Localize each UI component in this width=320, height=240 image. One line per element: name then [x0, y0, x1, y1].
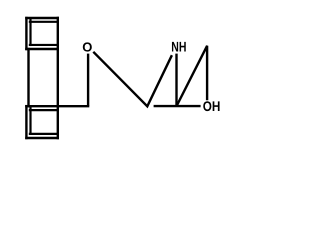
- ring A outer top edge: [26, 17, 57, 19]
- ring A inner bottom double-bond line: [30, 44, 58, 46]
- ring B outer left edge: [25, 106, 27, 138]
- bonds C2 up to apex and apex down to OH: [177, 46, 208, 106]
- ring B top edge extending as bond toward O: [26, 105, 88, 107]
- bonds O to C1 and C1 up to NH: [93, 52, 172, 107]
- ring A outer bottom edge: [26, 48, 57, 50]
- svg-text:OH: OH: [203, 98, 221, 114]
- middle left vertical wire: [27, 49, 29, 106]
- ring B inner left double-bond line: [29, 108, 31, 134]
- ring A outer left edge: [25, 18, 27, 49]
- ring A inner top double-bond line: [30, 21, 58, 23]
- svg-text:NH: NH: [171, 39, 186, 55]
- ring B inner bottom double-bond line: [30, 133, 58, 135]
- long right vertical edge: [57, 18, 59, 138]
- bond NH down to C2: [175, 54, 177, 106]
- svg-text:O: O: [82, 40, 92, 55]
- wire from O label down to ring bond: [87, 54, 89, 106]
- ring B inner top double-bond line: [30, 109, 58, 111]
- ring A inner left double-bond line: [29, 19, 31, 45]
- chemical structure diagram: [0, 0, 247, 156]
- ring B outer bottom edge: [26, 137, 57, 139]
- chain horizontal bond to OH: [154, 105, 201, 107]
